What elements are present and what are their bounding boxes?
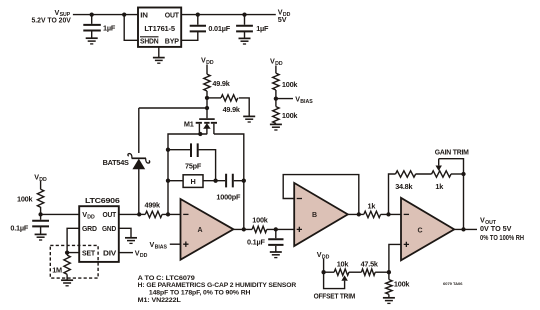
svg-text:SHDN: SHDN <box>140 36 159 45</box>
notes <box>138 275 297 304</box>
svg-text:6079 TA06: 6079 TA06 <box>443 281 463 286</box>
svg-text:49.9k: 49.9k <box>223 105 241 114</box>
op-amp A <box>181 199 234 260</box>
wire GRD-SET <box>67 228 79 252</box>
svg-text:1000pF: 1000pF <box>216 193 241 202</box>
wire vdd pin <box>41 213 80 215</box>
resistor 49.9k horizontal <box>207 95 249 116</box>
svg-text:1µF: 1µF <box>103 23 116 32</box>
node OUT junction <box>137 212 141 216</box>
label VDD div <box>135 249 148 259</box>
capacitor 75pF <box>168 143 216 180</box>
ground output cap <box>239 38 251 44</box>
wire B feedback <box>283 175 359 215</box>
svg-text:100k: 100k <box>394 279 411 288</box>
diode BAT54S <box>103 108 150 214</box>
svg-text:OFFSET TRIM: OFFSET TRIM <box>314 292 356 301</box>
label VBIAS A <box>150 240 181 250</box>
svg-text:LTC6906: LTC6906 <box>85 196 120 205</box>
svg-text:BAT54S: BAT54S <box>103 158 129 167</box>
svg-text:0% TO 100% RH: 0% TO 100% RH <box>480 233 524 242</box>
guard dashed box <box>50 245 98 278</box>
svg-text:148pF TO 178pF, 0% TO 90% RH: 148pF TO 178pF, 0% TO 90% RH <box>149 290 251 297</box>
ground input cap <box>86 38 98 44</box>
resistor 47.5k <box>361 260 389 276</box>
svg-text:BYP: BYP <box>165 36 179 45</box>
svg-text:0.1µF: 0.1µF <box>247 238 265 247</box>
svg-text:1k: 1k <box>435 182 444 191</box>
svg-text:100k: 100k <box>252 216 269 225</box>
node H-1000pF <box>213 179 217 183</box>
svg-text:5.2V TO 20V: 5.2V TO 20V <box>32 16 71 25</box>
node rail-cap2 <box>242 12 246 16</box>
wire M1 source to left bus <box>168 134 207 214</box>
node SET res <box>65 250 69 254</box>
wire top rail left <box>73 14 138 16</box>
svg-text:0.1µF: 0.1µF <box>10 224 28 233</box>
svg-text:M1: M1 <box>184 119 194 128</box>
ground ltc cap <box>35 234 47 240</box>
capacitor 1uF output <box>236 15 269 38</box>
node C inv <box>386 212 390 216</box>
ground ltc6906 <box>125 238 137 244</box>
label VDD 5V <box>278 8 291 25</box>
wire M1 drain to right bus <box>214 134 244 229</box>
svg-text:GAIN TRIM: GAIN TRIM <box>435 148 469 157</box>
svg-text:OUT: OUT <box>103 210 117 219</box>
resistor 100k A-out <box>252 216 294 233</box>
resistor 100k bias top <box>273 66 299 99</box>
resistor 1M <box>52 253 70 280</box>
ground offset <box>383 298 395 304</box>
svg-text:C: C <box>418 227 423 234</box>
svg-text:100k: 100k <box>282 80 299 89</box>
ground 49.9k <box>243 116 255 122</box>
svg-text:47.5k: 47.5k <box>361 260 379 269</box>
svg-text:100k: 100k <box>17 195 34 204</box>
svg-text:LT1761-5: LT1761-5 <box>144 24 175 33</box>
node B out <box>357 212 361 216</box>
svg-text:BIAS: BIAS <box>155 245 168 251</box>
svg-text:DD: DD <box>87 215 95 221</box>
capacitor 1000pF <box>216 174 243 202</box>
svg-text:1µF: 1µF <box>256 24 269 33</box>
svg-text:H: H <box>190 177 195 186</box>
wire C output <box>454 228 477 230</box>
node inv input bus <box>166 212 170 216</box>
svg-text:34.8k: 34.8k <box>395 182 413 191</box>
svg-text:OUT: OUT <box>165 10 180 19</box>
ground 1M <box>61 280 73 286</box>
resistor 100k bias bottom <box>273 99 299 125</box>
ground bias <box>270 124 282 130</box>
svg-text:75pF: 75pF <box>185 161 202 170</box>
label VOUT <box>480 215 524 242</box>
label VSUP <box>32 8 71 25</box>
svg-text:GND: GND <box>102 224 116 233</box>
resistor 100k ltc6906 <box>17 181 44 214</box>
svg-text:A TO C: LTC6079: A TO C: LTC6079 <box>138 275 195 282</box>
resistor 49.9k vertical <box>204 65 231 98</box>
node 1000pF right <box>242 179 246 183</box>
svg-text:0.01µF: 0.01µF <box>208 24 230 33</box>
svg-text:0V TO 5V: 0V TO 5V <box>480 224 512 233</box>
svg-text:M1: VN2222L: M1: VN2222L <box>138 297 181 304</box>
regulator U1 LT1761-5 <box>138 8 181 47</box>
op-amp C <box>401 198 454 260</box>
resistor 34.8k <box>395 171 431 191</box>
node filter <box>274 227 278 231</box>
svg-text:H: GE PARAMETRICS G-CAP 2 HUMI: H: GE PARAMETRICS G-CAP 2 HUMIDITY SENSO… <box>138 282 297 289</box>
node offset sum <box>387 270 391 274</box>
svg-text:IN: IN <box>140 10 148 19</box>
op-amp B <box>294 183 348 246</box>
svg-text:BIAS: BIAS <box>300 99 313 105</box>
node VBIAS <box>274 96 278 100</box>
capacitor 0.1uF ltc6906 <box>10 214 49 234</box>
label VDD mid <box>201 56 214 66</box>
resistor 1k B-out <box>364 201 401 217</box>
svg-text:1k: 1k <box>368 201 377 210</box>
wire DIV pin <box>119 252 133 254</box>
sensor H box <box>168 175 225 188</box>
capacitor 1uF input <box>83 15 116 38</box>
capacitor 0.01uF bypass <box>181 15 230 41</box>
potentiometer 10k offset <box>324 260 362 289</box>
ground regulator <box>153 47 165 63</box>
label VDD ltc6906 <box>34 173 47 183</box>
node A out <box>242 227 246 231</box>
wire A output <box>233 228 252 230</box>
node H row left <box>166 179 170 183</box>
wire OUT pin <box>119 213 139 215</box>
node vdd pin <box>38 212 42 216</box>
svg-text:5V: 5V <box>278 15 287 24</box>
node 75pF left <box>166 148 170 152</box>
wire VDD drop <box>323 259 325 273</box>
node offset vdd <box>321 270 325 274</box>
svg-text:100k: 100k <box>282 111 299 120</box>
wire C feedback riser <box>389 174 396 214</box>
node rail-bypcap <box>196 12 200 16</box>
wire shdn tie <box>124 15 137 41</box>
svg-text:SET: SET <box>82 248 96 257</box>
svg-text:DD: DD <box>140 253 148 259</box>
resistor 499k <box>139 200 180 217</box>
svg-text:10k: 10k <box>337 260 350 269</box>
wire B output <box>348 213 364 215</box>
node 49.9k tap <box>205 96 209 100</box>
label VDD bias <box>270 57 283 67</box>
node rail-cap1 <box>90 12 94 16</box>
node C out <box>461 227 465 231</box>
transistor M1 <box>184 119 217 134</box>
svg-text:49.9k: 49.9k <box>212 79 230 88</box>
svg-text:A: A <box>198 227 203 234</box>
capacitor 0.1uF filter <box>247 229 284 251</box>
potentiometer 1k gain <box>432 159 464 191</box>
ground filter <box>270 252 282 258</box>
oscillator U2 LTC6906 <box>79 196 119 262</box>
wire GND pin <box>119 228 131 237</box>
wire to C noninv <box>389 244 401 272</box>
label VBIAS <box>276 95 313 105</box>
svg-text:GRD: GRD <box>82 224 97 233</box>
resistor 100k offset <box>386 272 411 297</box>
label VDD offset <box>317 250 330 260</box>
node gate line <box>205 106 209 110</box>
node rail-shdn <box>122 12 126 16</box>
svg-text:DIV: DIV <box>103 248 116 257</box>
svg-text:499k: 499k <box>145 200 162 209</box>
svg-text:1M: 1M <box>52 266 62 275</box>
node M1 source <box>198 132 202 136</box>
wire gate to diode <box>139 98 207 118</box>
node gain top <box>461 172 465 176</box>
wire gain to out <box>463 174 465 229</box>
svg-text:B: B <box>312 212 317 219</box>
wire top rail right <box>181 14 275 16</box>
